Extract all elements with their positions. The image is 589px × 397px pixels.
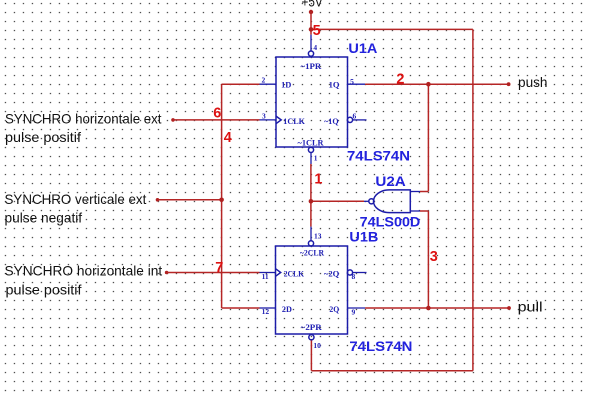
svg-text:~1Q: ~1Q bbox=[324, 116, 339, 126]
svg-text:3: 3 bbox=[430, 249, 438, 265]
svg-text:SYNCHRO verticale ext: SYNCHRO verticale ext bbox=[5, 192, 147, 207]
svg-text:1: 1 bbox=[314, 172, 322, 188]
wire net 2 push bbox=[365, 82, 510, 191]
svg-text:74LS74N: 74LS74N bbox=[349, 339, 412, 354]
junction net 3 bbox=[426, 306, 431, 311]
svg-text:U2A: U2A bbox=[375, 174, 406, 189]
svg-text:13: 13 bbox=[314, 231, 322, 240]
svg-text:10: 10 bbox=[313, 341, 321, 350]
svg-text:~1CLR: ~1CLR bbox=[298, 138, 325, 148]
svg-text:3: 3 bbox=[262, 111, 266, 120]
label SYNCHRO horizontale ext bbox=[5, 111, 162, 145]
svg-text:1D: 1D bbox=[281, 80, 291, 90]
svg-text:8: 8 bbox=[352, 272, 356, 281]
svg-text:pull: pull bbox=[518, 300, 543, 315]
label SYNCHRO horizontale int bbox=[5, 264, 163, 298]
svg-text:2Q: 2Q bbox=[329, 304, 339, 314]
svg-text:pulse positif: pulse positif bbox=[6, 282, 82, 297]
svg-text:~2Q: ~2Q bbox=[324, 268, 340, 278]
junction +5V net 5 bbox=[309, 27, 314, 32]
svg-text:~1PR: ~1PR bbox=[301, 61, 323, 71]
svg-text:9: 9 bbox=[352, 308, 356, 317]
svg-text:1: 1 bbox=[314, 153, 318, 162]
svg-text:pulse positif: pulse positif bbox=[5, 130, 81, 145]
svg-text:6: 6 bbox=[213, 106, 221, 122]
svg-text:1Q: 1Q bbox=[329, 80, 340, 90]
svg-text:5: 5 bbox=[350, 77, 354, 86]
svg-text:4: 4 bbox=[224, 130, 232, 146]
svg-text:U1B: U1B bbox=[349, 229, 378, 244]
wire net 6 bbox=[171, 118, 259, 122]
svg-text:~2PR: ~2PR bbox=[301, 322, 323, 332]
wire net 5 bbox=[310, 29, 473, 370]
svg-text:SYNCHRO horizontale ext: SYNCHRO horizontale ext bbox=[5, 111, 162, 126]
svg-text:6: 6 bbox=[353, 112, 357, 121]
svg-text:2: 2 bbox=[262, 76, 266, 85]
svg-text:SYNCHRO horizontale int: SYNCHRO horizontale int bbox=[5, 264, 163, 279]
svg-text:5: 5 bbox=[313, 23, 321, 39]
svg-text:11: 11 bbox=[262, 272, 269, 281]
svg-text:pulse negatif: pulse negatif bbox=[5, 211, 83, 226]
svg-text:4: 4 bbox=[313, 43, 317, 52]
svg-text:push: push bbox=[518, 75, 548, 90]
svg-text:+5V: +5V bbox=[302, 0, 323, 9]
label SYNCHRO verticale ext bbox=[5, 192, 147, 226]
svg-text:12: 12 bbox=[262, 307, 270, 316]
svg-text:~2CLR: ~2CLR bbox=[300, 248, 325, 258]
svg-text:7: 7 bbox=[215, 260, 223, 276]
wire net 7 bbox=[165, 271, 260, 275]
flip-flop U1B bbox=[260, 227, 367, 350]
flip-flop U1A bbox=[260, 35, 367, 164]
nand U2A bbox=[364, 190, 428, 213]
svg-text:2CLK: 2CLK bbox=[284, 268, 305, 278]
wire net 1 bbox=[311, 164, 364, 227]
junction net 4 bbox=[219, 198, 224, 203]
svg-text:U1A: U1A bbox=[348, 41, 377, 56]
power +5V bbox=[302, 0, 323, 35]
svg-text:2: 2 bbox=[396, 71, 404, 87]
svg-text:1CLK: 1CLK bbox=[283, 116, 305, 126]
svg-text:2D: 2D bbox=[282, 304, 292, 314]
junction net 2 bbox=[426, 82, 431, 87]
wire net 3 pull bbox=[365, 211, 511, 310]
junction net 1 bbox=[309, 199, 314, 204]
wire net 4 bbox=[156, 84, 260, 308]
svg-text:74LS74N: 74LS74N bbox=[347, 149, 410, 164]
svg-text:74LS00D: 74LS00D bbox=[360, 214, 421, 229]
